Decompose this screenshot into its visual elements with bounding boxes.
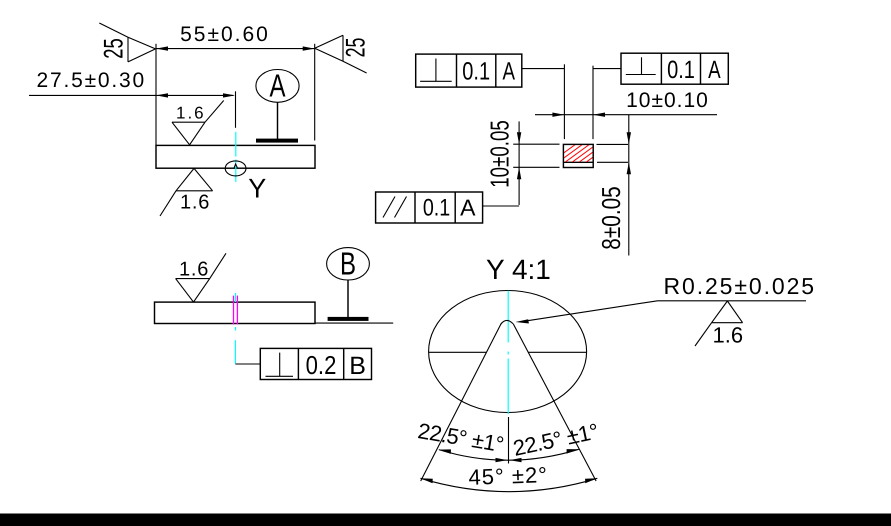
dimension 10±0.05 vertical (left) — [485, 120, 522, 205]
feature control frame perpendicular 0.2 B — [260, 348, 371, 380]
detail boundary ellipse — [429, 291, 587, 413]
svg-text:0.2: 0.2 — [306, 350, 337, 380]
roughness symbol 25 left (rotated, apex right) — [99, 23, 156, 62]
svg-text:Y: Y — [248, 174, 266, 204]
svg-text:45° ±2°: 45° ±2° — [468, 462, 548, 490]
leader from parallel FCF — [483, 205, 519, 207]
leader to FCF B — [235, 363, 260, 365]
feature control frame perpendicular 0.1 A (right) — [621, 53, 728, 84]
surface line right — [528, 351, 586, 353]
datum A symbol — [256, 68, 299, 143]
svg-text:A: A — [269, 68, 286, 104]
svg-text:A: A — [708, 56, 721, 84]
centerline cyan view1 — [235, 132, 237, 182]
svg-text:0.1: 0.1 — [423, 194, 450, 221]
leader from left FCF — [522, 68, 564, 70]
groove tip radius — [501, 320, 514, 324]
extension line left of square — [563, 64, 565, 139]
svg-text:Y 4:1: Y 4:1 — [486, 254, 551, 285]
roughness symbol 1.6 view2 — [176, 253, 226, 302]
svg-text:1.6: 1.6 — [713, 323, 744, 348]
dimension 27.5 line with arrows — [29, 93, 235, 97]
svg-text:25: 25 — [99, 38, 129, 58]
surface line left — [429, 351, 487, 353]
extension line left — [155, 44, 157, 146]
feature control frame perpendicular 0.1 A (left) — [416, 54, 522, 87]
lines left of square — [513, 143, 559, 145]
extension line right — [314, 44, 316, 141]
magenta slot lines — [234, 296, 238, 325]
roughness symbol 1.6 at radius — [695, 301, 743, 348]
detail Y indicator circle — [225, 161, 246, 176]
extension line short center — [235, 91, 237, 128]
part outline rectangle — [156, 145, 315, 168]
svg-text:1.6: 1.6 — [176, 104, 206, 123]
base surface line — [315, 322, 393, 324]
angular dim arc 22.5 — [439, 446, 580, 462]
dimension 8±0.05 vertical (right) — [596, 115, 631, 256]
part outline rectangle 2 — [155, 302, 316, 323]
datum B symbol — [327, 246, 370, 321]
svg-text:A: A — [460, 194, 476, 220]
svg-text:10±0.05: 10±0.05 — [485, 120, 515, 188]
svg-text:27.5±0.30: 27.5±0.30 — [37, 69, 146, 92]
dimension 10±0.10 line with arrows — [535, 113, 717, 117]
svg-text:B: B — [340, 246, 356, 282]
svg-text:55±0.60: 55±0.60 — [180, 23, 270, 46]
svg-text:1.6: 1.6 — [180, 192, 210, 214]
roughness symbol 1.6 bottom — [160, 168, 213, 216]
lines right of square — [597, 143, 629, 145]
angular dim arc 45 — [420, 476, 598, 492]
extension line right of square — [592, 66, 594, 139]
svg-text:25: 25 — [341, 38, 371, 58]
svg-text:10±0.10: 10±0.10 — [626, 89, 709, 112]
groove notch on bottom edge — [234, 164, 238, 168]
cyan centerline detail — [507, 291, 509, 414]
bottom black taskbar — [0, 514, 891, 526]
svg-text:0.1: 0.1 — [667, 56, 695, 84]
roughness symbol 1.6 top — [172, 101, 224, 145]
leader R0.25 with arrow — [515, 301, 806, 326]
svg-text:A: A — [503, 58, 516, 86]
dimension 55 line with arrows — [156, 46, 315, 50]
cyan centerline view2 — [234, 293, 236, 364]
svg-text:R0.25±0.025: R0.25±0.025 — [664, 273, 816, 299]
V groove left flank — [421, 324, 501, 481]
centerline extension below circle — [508, 417, 510, 464]
feature control frame parallel 0.1 A — [376, 192, 483, 223]
roughness symbol 25 right (rotated, apex left) — [315, 35, 371, 73]
section square with red hatch — [550, 144, 611, 168]
svg-text:B: B — [349, 352, 366, 380]
leader from right FCF — [593, 68, 621, 70]
svg-text:0.1: 0.1 — [462, 58, 490, 86]
svg-text:1.6: 1.6 — [179, 259, 209, 281]
V groove right flank — [513, 324, 596, 481]
svg-text:8±0.05: 8±0.05 — [596, 186, 626, 249]
